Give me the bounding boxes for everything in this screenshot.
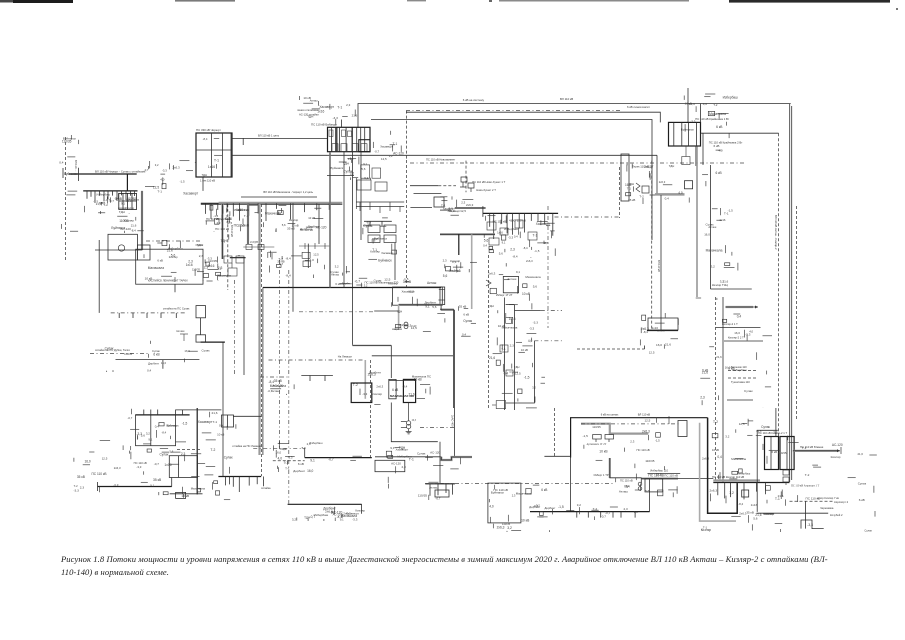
bus: Kizlyar 110 kV main y482: [713, 482, 789, 484]
svg-text:КАСПИЙСК ЛЕНИНКЕНТ ТАРКИ: КАСПИЙСК ЛЕНИНКЕНТ ТАРКИ: [148, 279, 188, 283]
svg-text:-1,5: -1,5: [180, 180, 185, 184]
wire: stub y289 Kizlyar TEC: [711, 288, 752, 290]
annotation cluster: Miatli row: [144, 234, 240, 259]
svg-text:-8,4: -8,4: [286, 256, 292, 260]
transformer group box Babayurt: [328, 127, 371, 151]
svg-text:6 кВ линия висит: 6 кВ линия висит: [627, 105, 650, 109]
svg-text:Дербент: Дербент: [148, 361, 160, 365]
svg-text:-8,4: -8,4: [625, 484, 630, 488]
svg-text:Сулак: Сулак: [330, 270, 339, 274]
svg-text:10 кВ: 10 кВ: [599, 449, 608, 453]
svg-text:5,6: 5,6: [101, 201, 106, 205]
substation box Buynaksk: [136, 415, 176, 446]
wire: drop from y483 bus: [437, 484, 439, 495]
wire: long tie y155: [232, 154, 657, 156]
bus: y213 Novy Khushet main: [483, 212, 558, 214]
svg-text:0,4: 0,4: [147, 368, 151, 372]
wire: thick gray corridor x248: [247, 203, 249, 244]
svg-text:2,3: 2,3: [181, 452, 186, 456]
svg-text:3,2: 3,2: [292, 517, 297, 521]
svg-text:-1,5: -1,5: [558, 505, 564, 509]
wire: link y138 Babayurt-west: [232, 137, 328, 139]
arrow head y450: [837, 449, 840, 452]
wire: drop a y221: [369, 221, 371, 226]
svg-text:16,0: 16,0: [656, 343, 662, 347]
svg-text:-3,3: -3,3: [690, 119, 695, 123]
svg-text:-3,3: -3,3: [362, 392, 367, 396]
transformer with ground x408: [401, 403, 417, 434]
series stack box b: [196, 335, 206, 342]
wire: feeder 6 from Chiryurt bus: [239, 203, 241, 220]
svg-text:-8,4: -8,4: [738, 502, 743, 506]
wire: generator feeder 3 on Sulak bus: [94, 191, 96, 203]
svg-text:Избербаш: Избербаш: [314, 513, 329, 517]
wire: small bus y456: [544, 455, 570, 457]
svg-text:16,0: 16,0: [307, 469, 313, 473]
svg-text:Акташ: Акташ: [429, 485, 439, 489]
svg-text:2,3: 2,3: [395, 327, 400, 331]
wire: dashed corridor x370 south: [370, 360, 372, 457]
svg-text:АС-120: АС-120: [391, 462, 401, 466]
svg-text:10 кВ: 10 кВ: [522, 292, 530, 296]
symbol row y243-249: [299, 243, 330, 249]
svg-text:Акташ: Акташ: [619, 489, 629, 493]
aux box below Krainovka: [682, 146, 696, 166]
wire: feeder 13 from Chiryurt bus: [316, 203, 318, 210]
svg-text:9,1: 9,1: [150, 483, 154, 487]
wire: dark core of corridor x142: [141, 191, 143, 250]
wire: feeder 9 from Chiryurt bus: [265, 203, 267, 221]
svg-text:-1,5: -1,5: [182, 422, 188, 426]
svg-text:-0,7: -0,7: [328, 458, 334, 462]
svg-text:12,5: 12,5: [102, 457, 108, 461]
svg-text:Кизляр: Кизляр: [125, 206, 134, 210]
svg-text:Кизляр: Кизляр: [831, 455, 841, 459]
bus: gray tie y345: [353, 344, 392, 346]
svg-text:21,6: 21,6: [131, 223, 137, 227]
svg-text:21,6: 21,6: [716, 355, 722, 359]
svg-text:Сулак: Сулак: [160, 453, 169, 457]
wire: stub below frame: [174, 284, 176, 292]
svg-text:4,0: 4,0: [528, 339, 533, 343]
svg-text:Т-2: Т-2: [805, 473, 810, 477]
wire: gray corridor x330 lower: [329, 203, 331, 287]
svg-text:Дербент: Дербент: [126, 198, 139, 202]
wire: feeder 1 from Chiryurt bus: [204, 203, 206, 214]
svg-text:5,6: 5,6: [499, 252, 503, 256]
svg-text:2xАС-400: 2xАС-400: [451, 415, 455, 427]
svg-text:ПС 110 кВ Бабаюрт: ПС 110 кВ Бабаюрт: [311, 123, 338, 127]
svg-text:ВЛ 110 кВ Махачкала - Чирюрт 1: ВЛ 110 кВ Махачкала - Чирюрт 1,2 цепь: [263, 190, 313, 194]
bus: thick gray y478 east: [642, 478, 678, 480]
bus: link over Makhachkala boxes: [389, 380, 416, 382]
wire: tick under dotted bus: [175, 313, 177, 318]
wire: dash-dot y360 Levashi: [269, 359, 365, 361]
svg-text:ПС 110 кВ Ново-Хушет 1 Т: ПС 110 кВ Ново-Хушет 1 Т: [472, 180, 505, 184]
svg-text:0,4: 0,4: [59, 160, 64, 164]
wire: Babayurt dark bar 2: [351, 127, 353, 151]
wire: feeder 12 from Chiryurt bus: [303, 203, 305, 212]
wire: tie y359: [116, 359, 200, 361]
svg-text:9,1: 9,1: [121, 202, 125, 206]
wire: L-corridor x453 south: [440, 309, 453, 408]
wire: gray drop x330 to main bus: [329, 152, 331, 203]
svg-text:4,0: 4,0: [283, 447, 287, 451]
svg-text:2x6,3: 2x6,3: [497, 526, 505, 530]
dark box RP Babayurt: [359, 140, 370, 152]
svg-text:2,3: 2,3: [630, 440, 634, 444]
svg-text:21,6: 21,6: [858, 452, 864, 456]
transformer block B Kizlyar: [780, 437, 794, 470]
svg-text:9,1: 9,1: [390, 446, 395, 450]
svg-text:Кизляр-2 2 Т: Кизляр-2 2 Т: [728, 336, 744, 340]
svg-text:Буйнакск: Буйнакск: [64, 172, 78, 176]
wire: drop from south bus: [600, 512, 602, 518]
svg-text:2,3: 2,3: [452, 260, 456, 264]
wire: bus y409 east: [176, 409, 222, 411]
svg-text:-1,5: -1,5: [403, 277, 409, 281]
bus: y330 Kochubey west: [647, 330, 678, 332]
wire: Krainovka bay bar: [696, 122, 698, 146]
wire: drop from south bus: [634, 512, 636, 518]
svg-text:21,6: 21,6: [665, 342, 671, 346]
svg-text:ВЛ 110 кВ 1 цепь: ВЛ 110 кВ 1 цепь: [258, 134, 280, 138]
auxiliary box beside Miatli: [137, 245, 150, 260]
svg-text:ТДН: ТДН: [343, 162, 349, 166]
svg-text:Акташ: Акташ: [427, 281, 437, 285]
svg-text:Дербент: Дербент: [545, 506, 557, 510]
svg-text:10 кВ: 10 кВ: [414, 377, 422, 381]
svg-text:16,0: 16,0: [85, 460, 91, 464]
svg-text:4,0: 4,0: [160, 177, 165, 181]
wire: link x391-y441: [391, 403, 438, 442]
hydro plant block Miatli: [108, 234, 137, 260]
svg-text:Т-1: Т-1: [214, 159, 219, 163]
wire: dark drop x458: [458, 234, 460, 255]
svg-text:110/35: 110/35: [592, 425, 601, 429]
wire: Babayurt bay bar: [335, 127, 337, 151]
wire: NKh feeder 4: [506, 213, 508, 233]
wire: inner bar block B: [786, 437, 788, 470]
substation row box center: [393, 287, 443, 305]
svg-text:1x16: 1x16: [186, 263, 193, 267]
wire: dash link y310 east: [541, 309, 562, 311]
svg-text:-0,7: -0,7: [128, 416, 133, 420]
wire: dashed drop x619: [619, 167, 621, 218]
annotation cluster: khutor labels west: [268, 379, 295, 395]
svg-text:10 кВ: 10 кВ: [712, 448, 719, 452]
wire: Chirkey inner bar 3: [230, 133, 232, 177]
wire: Krainovka bay bar: [673, 122, 675, 146]
svg-text:Хасавюрт: Хасавюрт: [396, 448, 409, 452]
svg-text:4,0: 4,0: [749, 330, 753, 334]
wire: thick gray corridor x142: [141, 191, 143, 250]
wire: generator feeder 11 on Sulak bus: [130, 191, 132, 196]
wire: feeder from Kizlyar bus: [756, 483, 758, 492]
svg-text:10 кВ: 10 кВ: [145, 277, 153, 281]
svg-text:Хасавюрт: Хасавюрт: [380, 145, 393, 149]
svg-text:-3,3: -3,3: [807, 523, 813, 527]
wire: Babayurt dark bar 1: [336, 127, 338, 151]
svg-text:Т-1: Т-1: [226, 215, 231, 219]
bus: y493 stub: [170, 493, 203, 495]
wire: tie y133 to Kizlyar line: [701, 132, 779, 134]
svg-text:9,1: 9,1: [148, 437, 152, 441]
svg-text:12,5: 12,5: [645, 419, 651, 423]
svg-text:ПС 110 кВ: ПС 110 кВ: [637, 448, 650, 452]
svg-text:2,3: 2,3: [80, 485, 85, 489]
wire: long dash-dot tie y483: [425, 483, 613, 485]
svg-text:Т-1: Т-1: [501, 347, 506, 351]
annotation cluster: SE bus group: [616, 473, 678, 498]
substation box Makhachkala-2: [389, 379, 396, 398]
svg-text:хутор Кизляр 7 кв: хутор Кизляр 7 кв: [817, 496, 840, 500]
annotation cluster: NKh west labels: [440, 196, 473, 215]
bus: gray power path SE: [581, 424, 648, 434]
wire: tick under dotted bus: [160, 313, 162, 318]
svg-text:-3,3: -3,3: [136, 465, 141, 469]
wire: dark core y304: [399, 304, 443, 306]
wire: thick gray corridor x259: [258, 204, 260, 455]
svg-text:-8,4: -8,4: [203, 137, 208, 141]
wire: generator feeder 12 on Sulak bus: [134, 191, 136, 196]
svg-text:Сулак: Сулак: [744, 389, 753, 393]
svg-text:-8,4: -8,4: [523, 246, 528, 250]
annotation cluster: Terek group: [625, 162, 674, 204]
wire: northern loop to Krainovka: [406, 112, 660, 122]
bus: y208 NKh west: [455, 207, 486, 209]
wire: riser x341 to tie: [341, 120, 343, 128]
svg-text:АС-120: АС-120: [393, 152, 404, 156]
svg-text:1x16: 1x16: [208, 165, 215, 169]
annotation cluster: far right labels: [802, 443, 877, 533]
annotation cluster: Kizlyar south dense: [701, 419, 799, 532]
svg-text:12,5: 12,5: [460, 209, 466, 213]
svg-text:6 кВ на шинах: 6 кВ на шинах: [601, 413, 619, 417]
wire: drop from y483 bus: [429, 484, 431, 496]
svg-text:Хасавюрт: Хасавюрт: [319, 105, 334, 109]
svg-text:16,0: 16,0: [276, 450, 282, 454]
svg-text:ПС 110 кВ: ПС 110 кВ: [493, 219, 507, 223]
svg-text:ПС 110 кВ: ПС 110 кВ: [215, 227, 229, 231]
wire: gray corridor x471 south: [471, 234, 473, 309]
wire: dark L corridor x707: [708, 418, 738, 514]
svg-text:12,5: 12,5: [313, 252, 319, 256]
svg-text:2x6,3: 2x6,3: [376, 385, 383, 389]
svg-text:Кизляр: Кизляр: [289, 218, 299, 222]
wire: dashed corridor x261: [261, 204, 263, 476]
svg-text:ПС 110 кВ: ПС 110 кВ: [806, 496, 821, 500]
svg-text:5,6: 5,6: [282, 223, 286, 227]
annotation cluster: below Babayurt: [331, 157, 371, 181]
narrow box left x440: [440, 287, 445, 305]
svg-text:-8,4: -8,4: [349, 157, 354, 161]
svg-text:2x6,3: 2x6,3: [114, 466, 121, 470]
wire: dash-dot y341 east: [534, 340, 562, 342]
wire: drop x440: [439, 442, 441, 483]
wire: chain x308: [307, 244, 309, 268]
wire: drop x361: [361, 504, 363, 514]
wire: dashed link y449: [177, 449, 200, 451]
svg-text:2,3: 2,3: [199, 254, 204, 258]
svg-text:Сулак: Сулак: [858, 481, 867, 485]
wire: drop x304 to y457 bus: [304, 448, 306, 457]
cluster at corridor x248 foot: [243, 241, 274, 250]
wire: dash-dot inner y423: [581, 423, 680, 425]
svg-text:35 кВ: 35 кВ: [746, 511, 753, 515]
annotation cluster: tile5 label rows: [105, 341, 211, 373]
wire: dash-dot y377 west: [260, 376, 289, 378]
svg-text:ТДН: ТДН: [307, 115, 313, 119]
box right y478: [645, 479, 663, 492]
box y490: [435, 490, 449, 497]
wire: feeder from Kizlyar bus: [724, 483, 726, 499]
svg-text:Сулак: Сулак: [864, 529, 872, 533]
bus: Chiryurt left stub 110 kV: [69, 173, 137, 175]
wire: Chirkey inner bar 1: [211, 133, 213, 177]
bus: thick gray y304: [399, 304, 443, 306]
wire: feeder 4 from Chiryurt bus: [226, 203, 228, 211]
svg-text:6 кВ: 6 кВ: [157, 259, 163, 263]
svg-text:1x16: 1x16: [751, 503, 758, 507]
wire: drop from y483 bus: [452, 484, 454, 495]
wire: up-tick on Buynaksk bus: [150, 410, 152, 415]
wire: dash-dot corridor x288: [288, 270, 290, 504]
wire: dashed corridor x406 south: [405, 160, 407, 287]
wire: feeder 8 from Chiryurt bus: [257, 203, 259, 213]
svg-text:1x16: 1x16: [719, 218, 726, 222]
wire: feeder 3 from Chiryurt bus: [217, 203, 219, 210]
annotation cluster: east of Babayurt: [373, 131, 404, 161]
wire: frame left of Kizlyar blocks: [757, 430, 778, 512]
svg-text:21,6: 21,6: [352, 114, 358, 118]
wire: drop x391 to Makhachkala box: [390, 345, 392, 378]
svg-text:ТДН: ТДН: [397, 310, 403, 314]
annotation cluster: over main tie y287: [340, 277, 436, 287]
box x221 y415: [222, 415, 234, 427]
wire: chain x688 top: [687, 88, 689, 122]
svg-text:6 кВ: 6 кВ: [335, 282, 341, 286]
svg-text:Буйнакск: Буйнакск: [331, 166, 344, 170]
svg-text:Т-1: Т-1: [802, 446, 807, 450]
svg-text:ТДН: ТДН: [119, 210, 125, 214]
svg-text:Кизляр: Кизляр: [372, 392, 382, 396]
svg-text:2,3: 2,3: [461, 201, 465, 205]
svg-text:21,6: 21,6: [489, 356, 495, 360]
svg-text:2,3: 2,3: [510, 248, 515, 252]
svg-text:Махачкала: Махачкала: [525, 275, 541, 279]
transformer box Izberg: [503, 276, 518, 292]
wire: chain x504 south: [503, 298, 505, 411]
wire: connector to y486 bus: [171, 478, 173, 487]
wire: dash-dot y427 to corridor x454: [420, 427, 454, 429]
svg-text:Махачкала: Махачкала: [706, 249, 723, 253]
wire: outer frame right edge a: [789, 104, 791, 482]
wire: corridor x723 south: [722, 297, 724, 482]
svg-text:6 кВ: 6 кВ: [153, 353, 159, 357]
svg-text:2x6,3: 2x6,3: [488, 272, 496, 276]
annotation cluster: below Chiryurt bus east: [264, 205, 327, 232]
svg-text:2,3: 2,3: [443, 258, 447, 262]
page scan dot right: [896, 8, 898, 10]
wire: link y416 east: [233, 415, 261, 417]
wire: generator feeder 2 on Sulak bus: [90, 191, 92, 197]
svg-text:ПС 110 кВ Аэропорт 1 Т: ПС 110 кВ Аэропорт 1 Т: [791, 485, 820, 488]
feeder box row Novy Khushet: [487, 220, 537, 245]
annotation cluster: left of Chirkey: [144, 161, 199, 196]
wire: dashed y370: [728, 370, 758, 372]
wire: drop from y476: [224, 477, 226, 486]
wire: drop x319: [318, 204, 320, 244]
wire: generator feeder 10 on Sulak bus: [125, 191, 127, 200]
svg-text:6 кВ: 6 кВ: [244, 208, 250, 212]
svg-text:Хасавюрт: Хасавюрт: [381, 251, 394, 255]
svg-text:2,3: 2,3: [402, 465, 407, 469]
wire: dotted bus y312: [111, 312, 185, 314]
wire: long dashed VL-110 Kizlyar: [778, 133, 780, 470]
svg-text:Хасавюрт: Хасавюрт: [183, 191, 198, 195]
svg-text:1x16: 1x16: [317, 110, 324, 114]
svg-text:ПС 110 кВ Крайновка 1 Вт: ПС 110 кВ Крайновка 1 Вт: [695, 117, 730, 121]
wire: tie y513: [757, 512, 829, 514]
wire: generator feeder 6 on Sulak bus: [107, 191, 109, 199]
wire: Babayurt bay bar: [345, 127, 347, 151]
wire: NKh feeder 7: [524, 213, 526, 232]
svg-text:АС-120: АС-120: [331, 511, 342, 515]
svg-text:2x6,3: 2x6,3: [657, 328, 665, 332]
svg-text:-3,3: -3,3: [162, 168, 167, 172]
svg-text:-1,5: -1,5: [583, 434, 589, 438]
svg-text:10 кВ: 10 кВ: [521, 519, 530, 523]
svg-text:Кизляр: Кизляр: [388, 282, 398, 286]
cluster tyagovaya: [176, 330, 188, 341]
arrow head y307: [755, 306, 758, 309]
wire: drop a y375: [309, 376, 311, 382]
svg-text:10 кВ: 10 кВ: [498, 324, 505, 328]
wire: NKh feeder 11: [552, 213, 554, 235]
svg-text:Дербент: Дербент: [300, 227, 313, 231]
wire: second section bus y197: [241, 196, 317, 198]
wire: dashed y185 east: [438, 185, 456, 187]
svg-text:5,6: 5,6: [443, 274, 448, 278]
wire: long chain x352 south: [352, 152, 354, 345]
wire: riser x649: [649, 479, 651, 512]
wire: feeder from Kizlyar bus: [765, 483, 767, 495]
svg-text:-3,3: -3,3: [352, 518, 358, 522]
annotation cluster: Kizlyar stubs column: [700, 314, 772, 408]
svg-text:2x6,3: 2x6,3: [644, 165, 652, 169]
svg-text:Дербент: Дербент: [293, 469, 305, 473]
transformer symbol Terek: [636, 183, 649, 193]
svg-text:110/35: 110/35: [645, 459, 655, 463]
annotation cluster: below gray bus y234: [443, 258, 477, 278]
wire: Chirkey inner shelf: [196, 149, 232, 151]
svg-text:110/35: 110/35: [778, 451, 787, 455]
wire: dark core y450 with end: [793, 450, 840, 452]
annotation cluster: west of Buynaksk: [74, 440, 124, 492]
svg-text:-0,7: -0,7: [268, 389, 273, 393]
box row y460: [375, 460, 405, 471]
svg-text:12,5: 12,5: [411, 326, 417, 330]
wire: dark core x330: [329, 152, 331, 203]
svg-text:Т-1: Т-1: [627, 187, 632, 191]
bus: small y175 stub: [327, 175, 354, 177]
substation box Makhachkala-1: [351, 383, 372, 403]
wire: 110 kV northern tie: [358, 104, 791, 128]
box above y330 bus: [648, 318, 678, 330]
svg-text:35 кВ: 35 кВ: [153, 478, 162, 482]
annotation cluster: Makhachkala labels: [353, 371, 430, 405]
